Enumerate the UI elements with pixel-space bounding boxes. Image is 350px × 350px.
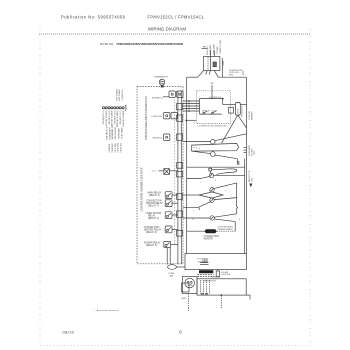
- link wire down: [236, 159, 238, 165]
- page frame right dotted line green dots: [309, 33, 311, 345]
- ground dashed drop left: [188, 294, 190, 312]
- left bus wire: [186, 77, 188, 253]
- interlock mid wire: [223, 104, 236, 106]
- svg-text:FPMV152KFA/FPMV152KFB/FPMV154K: FPMV152KFA/FPMV152KFB/FPMV154KFA/FPMV154…: [117, 42, 184, 46]
- svg-text:GRY KEY SC(1): GRY KEY SC(1): [103, 110, 105, 124]
- thermal cutout circle top: [211, 140, 216, 145]
- board bus line 2: [180, 91, 182, 264]
- svg-text:DOOR: DOOR: [238, 108, 240, 114]
- hv compartment box: [197, 279, 246, 295]
- connector block CN3: [177, 134, 183, 140]
- bell flare left: [198, 71, 204, 78]
- magnetron circle: [185, 278, 195, 288]
- svg-text:CERAMIC HEATER: CERAMIC HEATER: [218, 228, 234, 231]
- svg-text:MAGNETRON: MAGNETRON: [204, 280, 216, 283]
- interlock inner right vertical: [222, 99, 224, 105]
- hv transformer box: [185, 254, 247, 270]
- svg-text:1: 1: [215, 180, 216, 182]
- ground dashed drop right: [220, 296, 222, 310]
- svg-text:DM (RY2): DM (RY2): [153, 137, 163, 139]
- control panel assy box: [137, 87, 183, 264]
- interlock aux contact block: [229, 107, 234, 113]
- main horizontal wire: [187, 166, 245, 168]
- wire lower thermostat to link: [214, 198, 237, 200]
- oven motor relay component: [165, 212, 172, 219]
- svg-text:CN-E ORG: CN-E ORG: [120, 143, 122, 153]
- svg-text:OVEN LAMP: OVEN LAMP: [248, 144, 251, 156]
- svg-text:A.P.H(RY1): A.P.H(RY1): [152, 96, 163, 99]
- wire upper thermostat right: [214, 183, 237, 189]
- capacitor ticks below box: [201, 292, 204, 294]
- lamp tick from component: [209, 171, 211, 173]
- lamp socket loop wire: [212, 169, 237, 175]
- svg-text:2: 2: [201, 182, 202, 184]
- pin ticks on interlock wires: [188, 100, 190, 102]
- inline component under main wire: [209, 168, 212, 171]
- connector block CN5: [177, 171, 183, 177]
- svg-text:SENSING SW: SENSING SW: [242, 106, 244, 117]
- convection motor relay component: [165, 200, 172, 207]
- svg-text:120V: 120V: [254, 150, 256, 155]
- transformer primary marks: [202, 260, 204, 264]
- page frame bottom dotted line: [40, 345, 310, 347]
- svg-text:CN-A BLK: CN-A BLK: [108, 143, 111, 152]
- svg-text:60Hz: 60Hz: [229, 74, 233, 76]
- svg-text:VIO KEY SCAN(2): VIO KEY SCAN(2): [105, 110, 108, 126]
- svg-text:SWITCH ASSY: SWITCH ASSY: [114, 126, 117, 140]
- ground tick near plug: [202, 47, 208, 49]
- svg-text:1st.INTERLOCK: 1st.INTERLOCK: [209, 96, 222, 99]
- convection motor left wire: [183, 217, 210, 219]
- svg-text:7: 7: [193, 211, 194, 213]
- wire interlock bottom to bus: [186, 119, 196, 121]
- wire door switch diagonal to fan: [222, 115, 238, 143]
- L.I.T component: [164, 169, 170, 175]
- svg-text:CONTROL PANEL ASSEMBLY SEE NOT: CONTROL PANEL ASSEMBLY SEE NOTE: [141, 167, 144, 211]
- svg-text:ORG KEY SC(5): ORG KEY SC(5): [114, 110, 116, 124]
- hv capacitor: [216, 271, 219, 277]
- relay RY4 contact pair: [164, 113, 170, 119]
- wire door switch to right bus: [240, 104, 246, 106]
- page frame right dotted line: [309, 29, 311, 345]
- svg-text:CN-C RED: CN-C RED: [115, 143, 117, 153]
- page frame left dotted line: [39, 29, 41, 345]
- keyboard connector bracket: [125, 105, 126, 110]
- svg-text:MEMBRANE SW: MEMBRANE SW: [111, 125, 114, 140]
- svg-text:YEL KEY SCAN(4): YEL KEY SCAN(4): [111, 110, 114, 126]
- connector block CN4: [177, 163, 183, 169]
- convection motor bowtie bottom: [214, 219, 235, 222]
- svg-text:SENSING: SENSING: [252, 111, 254, 120]
- bowtie drop wire: [234, 222, 236, 232]
- svg-text:FLAT CABLE: FLAT CABLE: [120, 127, 123, 139]
- interlock junction dot: [222, 98, 224, 100]
- heater left wire: [187, 230, 205, 232]
- bell inner stubs: [206, 71, 207, 75]
- svg-text:BOARD ASSY: BOARD ASSY: [108, 127, 111, 140]
- relay RY2 contact: [164, 134, 170, 140]
- svg-text:THERMISTOR: THERMISTOR: [154, 77, 168, 79]
- interlock inner left vertical: [199, 99, 201, 115]
- svg-text:BLK KEY SCAN(8): BLK KEY SCAN(8): [122, 110, 125, 126]
- bell flare right: [214, 71, 218, 78]
- thermostat circle lower: [210, 198, 214, 202]
- svg-text:CN-D GRN: CN-D GRN: [118, 142, 120, 152]
- svg-text:POWER RELAY: POWER RELAY: [144, 242, 161, 245]
- power relay drop wires: [166, 248, 168, 265]
- interlock dashed box: [196, 91, 230, 124]
- cavity top edge wire right: [218, 76, 247, 78]
- svg-text:KEY SCAN B: KEY SCAN B: [118, 88, 121, 100]
- svg-text:* : Asy mark reference: * : Asy mark reference: [94, 309, 119, 312]
- wire bottom cutout to link: [215, 155, 237, 159]
- svg-text:3: 3: [194, 123, 195, 125]
- svg-text:L.I.T: L.I.T: [152, 171, 157, 173]
- vertical link wire: [236, 183, 239, 214]
- board bus line 1: [177, 91, 179, 264]
- svg-text:20A: 20A: [169, 274, 173, 277]
- svg-text:(RELAY 2): (RELAY 2): [146, 231, 157, 234]
- main relay component: [165, 192, 172, 199]
- thermistor body: [159, 79, 164, 85]
- power cord wires into plug box: [209, 50, 211, 56]
- svg-text:WIRING DIAGRAM: WIRING DIAGRAM: [148, 26, 186, 31]
- fuse body: [168, 265, 177, 270]
- svg-text:BLK (HOT): BLK (HOT): [207, 45, 209, 55]
- cavity top edge wire left: [187, 76, 198, 78]
- keyboard connector circles: [102, 107, 104, 109]
- svg-text:(GND): (GND): [181, 298, 187, 300]
- svg-text:Publication No: 5995574058: Publication No: 5995574058: [61, 15, 126, 20]
- svg-text:KEY SCAN A: KEY SCAN A: [115, 89, 118, 101]
- svg-text:CONTROL PANEL AND P.C.BOARD AS: CONTROL PANEL AND P.C.BOARD ASSY: [145, 95, 148, 140]
- svg-text:BRN KEY SCAN(6): BRN KEY SCAN(6): [116, 110, 119, 127]
- svg-text:4: 4: [192, 219, 193, 221]
- svg-text:7: 7: [225, 191, 226, 193]
- svg-text:RED KEY SC(7): RED KEY SC(7): [120, 110, 122, 124]
- cutout to heater ticks: [212, 143, 214, 146]
- power relay component: [164, 241, 171, 247]
- page frame left dotted line green dots: [39, 33, 41, 345]
- svg-text:LOW (RY4): LOW (RY4): [151, 116, 162, 118]
- fan circuit left wire: [183, 141, 211, 143]
- svg-text:2nd.SW: 2nd.SW: [212, 111, 218, 113]
- svg-text:H.V.DIODE: H.V.DIODE: [221, 274, 231, 276]
- svg-text:FPMV152CL / FPMV154CL: FPMV152CL / FPMV154CL: [148, 15, 205, 20]
- convection heater relay component: [165, 226, 172, 233]
- svg-text:MAIN RELAY: MAIN RELAY: [148, 191, 162, 194]
- wire door switch diagonal to bus: [238, 115, 247, 128]
- svg-text:FAN MOTOR: FAN MOTOR: [248, 170, 251, 182]
- svg-text:(RELAY 1): (RELAY 1): [149, 194, 160, 197]
- fuse lead top: [171, 264, 173, 265]
- noise filter component: [213, 62, 216, 67]
- bus ladder ticks: [244, 147, 247, 149]
- transformer winding bar: [199, 270, 213, 273]
- relay to bus wires: [172, 194, 178, 196]
- door sensing switch: [235, 102, 240, 115]
- svg-text:COMMON C: COMMON C: [122, 89, 124, 100]
- wire cutout to right bus diagonal: [215, 134, 247, 141]
- right edge tick: [249, 295, 251, 299]
- connector block CN7: [177, 211, 183, 217]
- convection motor circle: [210, 216, 214, 220]
- thermistor lead: [161, 85, 163, 86]
- connector block CN1: [177, 104, 183, 110]
- GRN wire right of plug box: [221, 58, 223, 77]
- note arrowhead: [249, 184, 252, 188]
- magnetron housing box: [183, 277, 198, 294]
- magnetron inner box: [182, 283, 190, 292]
- svg-text:08/10: 08/10: [63, 329, 75, 334]
- filament dashed leads: [200, 280, 202, 294]
- wires board to interlock box: [183, 100, 200, 102]
- svg-text:MONITOR: MONITOR: [202, 111, 210, 113]
- thermal cutout circle bottom: [211, 152, 216, 157]
- page frame top dashed line: [39, 33, 311, 35]
- connector block CN8: [177, 230, 183, 236]
- wire diamond left to bus: [183, 194, 199, 196]
- connector block CN6: [177, 194, 183, 200]
- lamp wire to right bus: [213, 174, 245, 176]
- right bus wire: [246, 77, 248, 253]
- svg-text:FILAMENT: FILAMENT: [211, 276, 219, 279]
- svg-text:DISPLAY P.C.B: DISPLAY P.C.B: [106, 126, 109, 140]
- oven lamp circle: [209, 173, 213, 177]
- transformer secondary dashes: [198, 274, 214, 276]
- bus dashed helper line: [174, 99, 176, 244]
- svg-text:SUPPLY CORD: SUPPLY CORD: [220, 39, 222, 53]
- svg-text:120V: 120V: [252, 177, 254, 182]
- convection heater bar: [204, 229, 216, 233]
- right bus second line: [244, 159, 246, 254]
- 2nd interlock switch symbol: [212, 113, 214, 115]
- interlock bottom wire: [200, 113, 222, 115]
- connector block CN2: [177, 115, 183, 121]
- svg-text:HEATER: HEATER: [204, 237, 213, 240]
- lamp wire to left bus: [187, 176, 210, 178]
- thermistor terminal on board: [161, 85, 164, 87]
- interlock inner top wire: [200, 98, 223, 100]
- svg-text:NOTE NO.: NOTE NO.: [100, 42, 114, 46]
- relay RY1 contact pair: [169, 91, 175, 97]
- svg-text:KEYBOARD: KEYBOARD: [118, 127, 121, 138]
- svg-text:1st. INTERLOCK SW - MONITOR SW: 1st. INTERLOCK SW - MONITOR SW -: [198, 124, 228, 127]
- svg-text:POWER: POWER: [217, 46, 219, 54]
- fuse lead right: [176, 266, 185, 268]
- thermostat diamond: [199, 192, 223, 198]
- heater right wire dashed: [217, 230, 235, 232]
- wire lower thermostat to left bus: [183, 202, 211, 208]
- heater element hexagon: [192, 143, 239, 151]
- monitor switch symbol: [203, 113, 205, 115]
- svg-text:GRN: GRN: [223, 61, 225, 66]
- convection motor bowtie top: [214, 214, 236, 217]
- svg-text:(RELAY 7): (RELAY 7): [148, 205, 159, 208]
- thermostat circle upper: [210, 188, 214, 192]
- svg-text:(RELAY 3): (RELAY 3): [148, 217, 159, 220]
- junction dot on box bottom: [220, 294, 222, 296]
- svg-text:CN-B WHT: CN-B WHT: [112, 142, 114, 152]
- svg-text:(RELAY 5): (RELAY 5): [146, 244, 157, 247]
- svg-text:8: 8: [239, 219, 240, 221]
- link connector ticks: [238, 161, 240, 163]
- svg-text:BLU KEY SC(3): BLU KEY SC(3): [109, 110, 111, 124]
- plug / noise filter box: [204, 56, 220, 70]
- hv compartment bottom extension: [246, 294, 250, 296]
